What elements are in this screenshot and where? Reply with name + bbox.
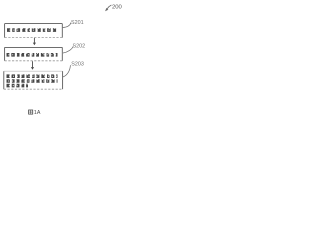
box S203 text line 1	[7, 75, 58, 76]
process box S203	[4, 71, 63, 89]
svg-text:1A: 1A	[34, 110, 41, 116]
leader curve S203	[63, 65, 71, 77]
figure reference arrow 200	[105, 5, 111, 11]
process box S201	[5, 24, 63, 38]
svg-text:200: 200	[112, 5, 123, 11]
svg-text:S201: S201	[71, 20, 84, 26]
arrow wire box1 to box2	[33, 38, 36, 46]
box S203 text line 2	[7, 80, 58, 81]
figure caption 图1A	[29, 110, 41, 116]
arrow wire box2 to box3	[31, 61, 34, 70]
box S203 text line 3	[7, 84, 29, 85]
svg-text:S202: S202	[73, 44, 86, 50]
box S201 text line	[7, 29, 57, 30]
process box S202	[5, 47, 63, 60]
svg-text:S203: S203	[71, 61, 84, 67]
leader curve S202	[63, 46, 73, 53]
box S202 text line	[7, 53, 58, 54]
leader curve S201	[63, 23, 71, 28]
